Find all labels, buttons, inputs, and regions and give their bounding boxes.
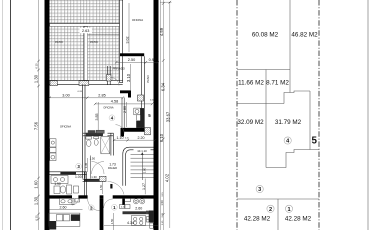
sink unit room1 [125, 198, 145, 204]
key number 3 [256, 185, 263, 193]
stair text 10x1.10 [134, 149, 151, 153]
unit number 2 in plan [88, 205, 94, 211]
kitchenette left wall [122, 98, 124, 128]
svg-text:2.60: 2.60 [135, 206, 142, 210]
svg-text:4.59: 4.59 [159, 27, 164, 36]
property line left dash-dot [236, 0, 238, 230]
dim 3.00 / 2.85 [48, 94, 124, 100]
window column block a [50, 81, 57, 86]
svg-text:4.02: 4.02 [164, 173, 169, 182]
svg-text:4.58: 4.58 [111, 100, 118, 104]
region5 left edge [309, 91, 311, 150]
street edge faint line [2, 0, 4, 230]
unit number 4 in plan [109, 115, 115, 121]
unit number 3 in plan [76, 163, 82, 169]
bath wall column [99, 176, 106, 181]
svg-text:OFICINA: OFICINA [132, 18, 143, 22]
svg-text:1.30: 1.30 [33, 196, 38, 205]
toilet 1 [60, 185, 71, 194]
palier door arc [108, 182, 125, 195]
svg-text:1.00: 1.00 [75, 175, 82, 179]
upper room fixture dark [88, 130, 96, 133]
svg-text:OFICINA: OFICINA [103, 107, 113, 110]
svg-text:3.02: 3.02 [126, 37, 130, 44]
svg-text:3: 3 [258, 187, 261, 193]
svg-text:3.85: 3.85 [95, 114, 99, 121]
svg-text:2.85: 2.85 [98, 94, 105, 98]
main lower wall segment a [50, 195, 73, 198]
left dimension texts [33, 63, 38, 221]
svg-text:2.80: 2.80 [123, 106, 127, 113]
divider unit1/unit2 [277, 199, 279, 230]
kitchenette dark block [136, 121, 144, 128]
small basin rect [54, 186, 60, 194]
dim 4.34 [104, 221, 158, 225]
bottom of 11.66 band [237, 103, 284, 105]
svg-text:PRIVADO: PRIVADO [113, 66, 126, 70]
right dimension chain [159, 0, 166, 230]
stair arrow [141, 152, 143, 180]
fridge dark room2 [71, 214, 80, 221]
kitchen counter room2 [49, 213, 80, 226]
svg-text:8.71 M2: 8.71 M2 [266, 80, 289, 87]
svg-text:11.66 M2: 11.66 M2 [238, 80, 264, 87]
svg-text:1.50: 1.50 [99, 184, 103, 190]
toilet bath [86, 137, 92, 147]
dim line vertical room1 [110, 213, 114, 230]
counter dark band room1 [123, 211, 153, 214]
svg-text:6.10: 6.10 [159, 133, 164, 142]
stove dark room2 [49, 221, 56, 230]
svg-text:2.50: 2.50 [128, 58, 135, 62]
left dimension chain line [38, 0, 40, 230]
stairwell wall rounded [123, 147, 154, 186]
patio hatch top band [50, 0, 120, 24]
svg-text:0.90: 0.90 [149, 58, 156, 62]
svg-text:1.73: 1.73 [109, 162, 116, 166]
bottom of 60.08 [237, 69, 290, 71]
patio divider wall [84, 26, 88, 80]
svg-text:1.10: 1.10 [117, 136, 124, 140]
paso wall column [138, 95, 144, 101]
bath door arcs [92, 162, 105, 175]
bidet bath [94, 137, 99, 146]
main lower wall segment d [113, 195, 159, 198]
svg-text:1.30: 1.30 [91, 175, 97, 179]
privado door arc [111, 78, 119, 86]
divider 11.66/8.71 down to 32.09/31.79 [265, 70, 267, 168]
svg-text:0.15: 0.15 [150, 100, 154, 102]
kitchenette fixtures [134, 108, 141, 121]
light well wall [83, 84, 85, 178]
svg-text:1.80: 1.80 [142, 167, 146, 173]
svg-text:1.60: 1.60 [33, 180, 38, 189]
bidet [74, 186, 79, 193]
svg-text:4.34: 4.34 [127, 221, 134, 225]
key number 1 [285, 205, 292, 213]
dim 3.02 vertical [126, 3, 130, 52]
svg-text:1.90: 1.90 [54, 182, 61, 186]
privado left wall [108, 66, 111, 85]
bath right wall [111, 133, 113, 155]
unit number 1 in plan [111, 204, 117, 210]
door arc big [88, 199, 100, 211]
window column block b [79, 81, 89, 86]
main lower wall segment c [100, 195, 104, 198]
dim 4.58 [94, 100, 153, 106]
dim 3.10 vertical [126, 64, 131, 90]
svg-text:31.79 M2: 31.79 M2 [275, 119, 302, 126]
key number 4 [284, 137, 291, 145]
shower bath [101, 137, 110, 154]
paso wall [141, 56, 144, 128]
svg-text:1.50: 1.50 [160, 200, 164, 206]
svg-text:46.82 M2: 46.82 M2 [291, 32, 318, 39]
svg-text:PASO: PASO [146, 75, 150, 82]
svg-text:3.10: 3.10 [126, 73, 131, 82]
top of bottom band [237, 198, 319, 200]
svg-text:1.45: 1.45 [84, 162, 88, 168]
privado wall column [107, 75, 112, 82]
svg-text:1: 1 [287, 207, 290, 213]
bath top wall [83, 133, 114, 136]
patio left hatch [50, 26, 85, 80]
svg-text:33.67: 33.67 [166, 111, 171, 122]
wc cubicle wall [89, 156, 91, 179]
washbasin counter room2 [60, 198, 80, 204]
svg-text:6.34: 6.34 [161, 82, 166, 91]
door arc small [72, 199, 78, 205]
lower bath top wall [50, 172, 87, 175]
wall between top band and patios [50, 24, 123, 27]
street curb line [10, 0, 12, 230]
svg-text:42.28 M2: 42.28 M2 [244, 215, 271, 222]
svg-text:10·1.10: 10·1.10 [137, 149, 147, 153]
dim 1.10 / 2.20 [113, 136, 156, 142]
divider 60.08/46.82 [289, 0, 291, 93]
svg-text:32.09 M2: 32.09 M2 [237, 119, 264, 126]
cabinet right wall room1 [149, 211, 154, 223]
door arc room1 [104, 199, 113, 208]
svg-text:7.56: 7.56 [33, 121, 38, 130]
dim 2.60 [50, 205, 83, 209]
L wall middle [121, 128, 148, 137]
svg-text:1.50: 1.50 [110, 218, 114, 224]
dim 1.55 vertical [99, 181, 103, 194]
outer dimension chain [160, 1, 172, 228]
svg-text:1.27: 1.27 [142, 183, 146, 190]
key number 2 [267, 205, 274, 213]
svg-text:42.28 M2: 42.28 M2 [285, 215, 312, 222]
wall junction block [145, 128, 151, 135]
stove room1 [132, 216, 153, 226]
thick right wall [154, 0, 159, 230]
svg-text:1.30: 1.30 [33, 74, 38, 83]
top wall of privado [120, 53, 144, 56]
dim 2.80 vertical [123, 102, 127, 127]
dim 2.63 [80, 28, 120, 35]
bath lower wall [83, 179, 105, 181]
region4 step boundary [266, 150, 319, 168]
main lower wall segment b [78, 195, 87, 198]
svg-text:2.20: 2.20 [138, 136, 145, 140]
svg-text:3.00: 3.00 [62, 94, 69, 98]
thick left wall [45, 0, 50, 230]
svg-text:2.63: 2.63 [82, 29, 89, 33]
svg-text:PALIER: PALIER [108, 166, 117, 170]
property line right dash-dot [318, 0, 320, 230]
svg-text:60.08 M2: 60.08 M2 [252, 32, 279, 39]
bath top wall dark segment [86, 133, 103, 136]
dark fixture [110, 184, 112, 189]
L wall privado [120, 90, 131, 97]
frame line far right [367, 0, 369, 230]
paso wall dark strip [140, 108, 144, 126]
dim 3.85 vertical [95, 102, 99, 133]
svg-text:2.60: 2.60 [60, 205, 67, 209]
svg-text:OFICINA: OFICINA [60, 125, 71, 129]
lower bath top wall dark segment [60, 172, 76, 175]
center dividing wall [100, 199, 104, 230]
small cabinets room1 [120, 205, 131, 209]
dim line 2.50 / 0.90 [115, 58, 159, 64]
svg-text:0.15: 0.15 [34, 215, 38, 221]
upper room fixture [96, 130, 104, 133]
dim 1.27 vertical [142, 167, 147, 194]
patio bottom wall [50, 81, 123, 85]
stair treads [131, 154, 154, 177]
svg-text:PATIO: PATIO [55, 40, 63, 44]
svg-text:5: 5 [311, 136, 317, 147]
door arc upper room [116, 125, 125, 134]
lower bath walls [84, 172, 86, 196]
kitchen fixtures left wall [50, 139, 56, 161]
wall leg room1 [122, 199, 125, 205]
inner right chain line [160, 0, 164, 230]
svg-text:2: 2 [269, 207, 272, 213]
left dimension ticks [37, 60, 40, 221]
svg-text:PATIO: PATIO [90, 40, 98, 44]
lower bath counter [51, 176, 68, 184]
patio right hatch [88, 26, 120, 80]
svg-text:0.15: 0.15 [34, 63, 38, 69]
dim 2.60 room1 [121, 206, 142, 210]
patio right room wall [120, 0, 123, 83]
notch outline [284, 91, 310, 104]
dim 1.45 vertical [84, 158, 88, 172]
